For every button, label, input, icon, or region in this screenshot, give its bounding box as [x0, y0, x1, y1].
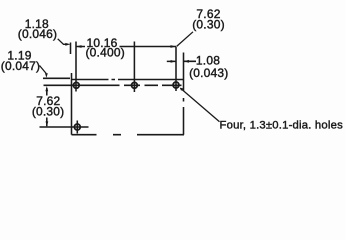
arrow leader holes: [180, 88, 184, 91]
extension line hole 2 vertical: [133, 42, 135, 93]
extension line left edge (1.18 dim): [70, 43, 72, 55]
dimension line 10.16 / 7.62 top: [76, 46, 176, 48]
leader 1.18: [58, 39, 66, 45]
svg-text:(0.047): (0.047): [1, 59, 40, 73]
svg-text:(0.30): (0.30): [32, 104, 65, 118]
pattern outline bottom edge: [72, 134, 185, 136]
extension line hole 3 vertical: [175, 47, 177, 91]
arrow 1.19 down: [45, 73, 48, 78]
leader 7.62 top right: [177, 32, 194, 47]
svg-text:(0.30): (0.30): [192, 18, 225, 32]
svg-text:Four, 1.3±0.1-dia. holes: Four, 1.3±0.1-dia. holes: [220, 120, 344, 132]
leader 1.19: [40, 66, 47, 74]
pattern outline right edge: [183, 53, 185, 135]
svg-text:(0.046): (0.046): [18, 27, 57, 41]
arrow 1.08 right: [184, 60, 189, 63]
dimension line 7.62 left vertical: [46, 88, 48, 126]
arrow 7.62 right end: [171, 45, 177, 48]
arrow 1.18 right-pointing: [65, 43, 70, 46]
arrow 1.08 left: [171, 60, 176, 63]
dimension line 1.08: [167, 60, 196, 62]
hole 4: [74, 124, 80, 130]
extension line top edge level (1.19 dim): [43, 77, 70, 79]
centerline through bottom hole: [40, 126, 89, 128]
arrow 7.62 left down: [46, 121, 49, 126]
crosshair hole 4 vertical: [76, 121, 78, 134]
pattern outline left edge: [71, 73, 73, 135]
hole 3: [173, 82, 179, 88]
arrow up at centerline: [45, 86, 48, 91]
centerline through top hole row: [44, 84, 182, 86]
arrow 10.16 left end: [76, 45, 82, 48]
extension line hole 1 vertical: [75, 42, 77, 92]
hole 1: [73, 82, 79, 88]
svg-text:(0.400): (0.400): [85, 45, 124, 59]
hole 2: [131, 82, 137, 88]
svg-text:(0.043): (0.043): [189, 66, 228, 80]
leader four holes note: [181, 88, 220, 122]
pattern outline top edge: [72, 79, 184, 81]
